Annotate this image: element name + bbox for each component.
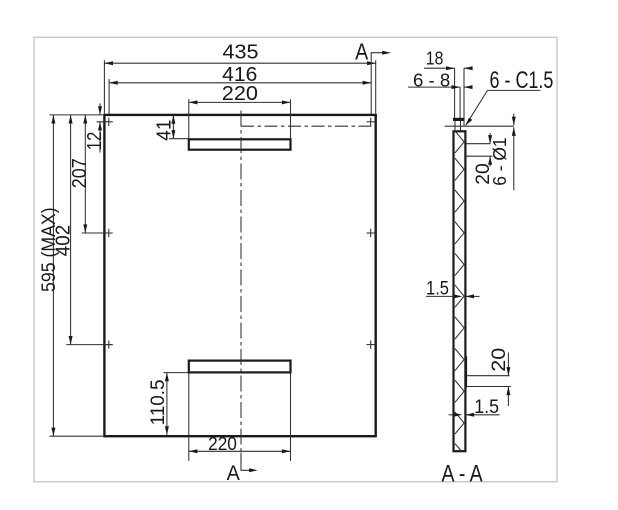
dimension 6 - Ø1 [489, 114, 516, 191]
dimension 416 [109, 64, 371, 114]
svg-text:220: 220 [208, 434, 237, 454]
dimension 402 [53, 115, 112, 345]
section marker A top [355, 39, 391, 114]
tab sides below band [454, 121, 456, 132]
bottom slot [189, 361, 291, 373]
dimension 595 (MAX) [39, 115, 60, 436]
svg-text:6 - C1.5: 6 - C1.5 [490, 67, 554, 94]
hole cross bottom-right [367, 340, 375, 348]
svg-text:220: 220 [222, 83, 258, 105]
dimension 1.5 (middle left of section) [426, 278, 480, 300]
drawing frame border [34, 37, 557, 482]
svg-text:12: 12 [84, 132, 106, 151]
vertical center line [240, 111, 242, 461]
section marker A bottom [227, 453, 258, 486]
reference line B [466, 143, 490, 145]
dimension 12 [84, 103, 106, 152]
top edge extension line left [50, 114, 104, 116]
svg-text:402: 402 [53, 225, 75, 256]
tab extension lines above section [454, 68, 456, 118]
svg-text:20: 20 [488, 348, 510, 372]
hole cross mid-left [105, 229, 113, 237]
dimension 220 bottom [189, 374, 291, 461]
svg-text:A - A: A - A [442, 461, 484, 488]
svg-text:A: A [227, 462, 240, 485]
svg-text:435: 435 [223, 41, 259, 63]
dimension 435 [104, 41, 375, 113]
dimension 220 top [189, 83, 291, 139]
horizontal center line [241, 125, 371, 127]
svg-text:18: 18 [426, 49, 444, 69]
svg-text:110.5: 110.5 [148, 379, 169, 425]
top edge band (section cut top) [453, 118, 465, 121]
reference line A (top of holes row) [445, 125, 514, 127]
svg-text:A: A [355, 39, 369, 65]
dimension 18 [424, 49, 473, 71]
hole cross mid-right [367, 229, 375, 237]
dimension 110.5 [148, 373, 188, 435]
section hatch chevrons [455, 131, 464, 451]
section plate body [454, 131, 466, 451]
svg-text:41: 41 [153, 120, 175, 141]
hole cross bottom-left [105, 340, 113, 348]
svg-text:6 - Ø1: 6 - Ø1 [489, 137, 510, 185]
svg-text:1.5: 1.5 [426, 278, 449, 300]
dimension 6 - 8 [408, 69, 473, 90]
svg-text:1.5: 1.5 [474, 396, 499, 418]
svg-text:6 - 8: 6 - 8 [413, 69, 450, 90]
plate outline (front view) [104, 115, 375, 436]
dimension 207 [69, 115, 112, 233]
dimension 20 (lower right) [488, 348, 511, 406]
hole cross top-left [97, 118, 113, 126]
svg-text:207: 207 [69, 158, 91, 188]
dimension 41 [153, 115, 188, 141]
dimension 20 (upper right) [472, 133, 494, 185]
hole cross top-right [367, 118, 375, 126]
reference line E [467, 386, 511, 388]
reference line D [467, 375, 510, 377]
louver tab protrusion (section, bottom slot) [465, 356, 467, 387]
bottom edge extension line left [50, 435, 104, 437]
reference line C [466, 155, 493, 157]
dimension 1.5 (bottom of section) [449, 396, 500, 418]
top slot [189, 139, 291, 149]
label 6 - C1.5 with leader [465, 67, 553, 126]
